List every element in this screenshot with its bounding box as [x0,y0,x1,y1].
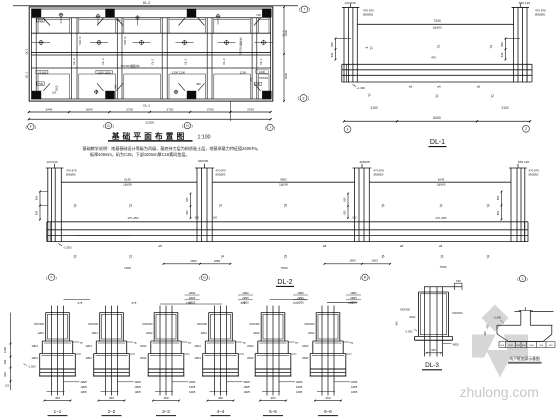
svg-text:2Ø12: 2Ø12 [86,344,93,348]
svg-text:70X300(偏板中): 70X300(偏板中) [238,37,242,55]
svg-text:1@600: 1@600 [437,183,446,187]
DL-2 left margin vertical dim chain [39,192,41,220]
svg-text:1Ø25: 1Ø25 [244,385,251,389]
plan column squares (filled) top row [32,9,41,18]
svg-text:300: 300 [195,216,200,219]
svg-text:3: 3 [347,128,349,132]
DL-3 dim 450 [427,352,442,354]
svg-text:J: J [522,277,524,281]
plan grid bubbles F G H J [28,123,34,129]
svg-text:1Ø32: 1Ø32 [350,291,357,295]
svg-text:400: 400 [395,321,399,326]
svg-text:1Ø25: 1Ø25 [296,390,303,394]
svg-text:450: 450 [431,348,436,352]
DL-2 column axis H [354,168,356,242]
svg-text:470 876: 470 876 [535,9,546,13]
DL-1 end axis bubbles [344,126,351,133]
svg-text:500: 500 [3,372,7,377]
svg-text:630: 630 [344,210,347,215]
DL-1 left column [343,7,345,82]
svg-text:2Ø12: 2Ø12 [253,331,260,335]
svg-text:470 876: 470 876 [216,169,227,173]
svg-text:DL-3: DL-3 [72,58,76,65]
svg-text:650: 650 [35,195,39,200]
svg-text:325325: 325325 [198,159,209,163]
svg-text:1Ø25: 1Ø25 [135,385,142,389]
svg-text:DL-1: DL-1 [184,58,188,65]
pit detail ground lines [497,324,521,326]
svg-text:9: 9 [303,96,305,100]
svg-text:120: 120 [52,90,57,94]
svg-text:DL-1: DL-1 [24,71,28,78]
svg-text:2100: 2100 [370,106,377,110]
svg-text:2Ø25: 2Ø25 [135,380,142,384]
svg-text:Ø50Ø50: Ø50Ø50 [529,173,539,177]
DL-3 rebar verticals [424,287,426,357]
svg-text:F: F [30,125,32,129]
svg-text:–1.500: –1.500 [28,365,36,369]
section 1-1 [32,301,88,416]
plan right-side vertical dimension 4200/4200 [283,7,285,101]
svg-text:530 120: 530 120 [518,160,529,164]
svg-text:470 876: 470 876 [374,169,385,173]
DL-2 column axis G [196,168,198,242]
svg-text:3750: 3750 [247,107,254,111]
pit detail excavation profile [496,325,498,334]
svg-text:|3: |3 [129,254,132,258]
svg-text:Ø50Ø50: Ø50Ø50 [216,173,226,177]
svg-text:DL-1: DL-1 [24,48,28,55]
svg-text:3–3: 3–3 [162,409,170,414]
svg-text:2Ø12: 2Ø12 [146,331,153,335]
svg-text:475 +850: 475 +850 [128,216,139,220]
plan footing box inner borders [37,18,39,33]
svg-text:7200: 7200 [124,266,131,270]
svg-text:G: G [203,276,206,280]
svg-text:1200 1200: 1200 1200 [172,70,186,74]
svg-text:2Ø25: 2Ø25 [242,301,249,305]
DL-3 top dim 515 [455,282,463,284]
DL-2 bottom beam box [47,221,528,223]
svg-text:300: 300 [484,331,487,336]
svg-text:坑下框加深示意图: 坑下框加深示意图 [509,356,540,361]
svg-text:7: 7 [304,8,306,12]
svg-text:2Ø12: 2Ø12 [247,344,254,348]
svg-text:|5: |5 [284,204,287,208]
svg-text:–1.500: –1.500 [405,330,413,334]
svg-text:–1.500: –1.500 [493,316,502,320]
svg-text:2Ø25: 2Ø25 [189,296,196,300]
svg-text:2Ø25: 2Ø25 [189,380,196,384]
DL-2 dim chain near H column [347,194,349,219]
svg-text:470 876: 470 876 [66,169,77,173]
svg-text:G: G [107,124,110,128]
svg-text:|2: |2 [436,94,439,98]
svg-text:|3: |3 [74,254,77,258]
svg-text:6645: 6645 [438,177,445,181]
DL-1 axis bubble 9 (left bottom) [300,95,307,102]
svg-text:470 876: 470 876 [363,9,374,13]
svg-text:2Ø25: 2Ø25 [350,301,357,305]
svg-text:70X170: 70X170 [123,36,127,46]
DL-1 bottom beam box [342,63,532,65]
svg-text:4Ø20: 4Ø20 [453,343,460,347]
svg-text:2: 2 [525,127,527,131]
svg-text:|5: |5 [284,254,287,258]
svg-text:3750: 3750 [126,107,133,111]
svg-text:DL-2: DL-2 [277,279,292,286]
svg-text:DL-2: DL-2 [143,1,150,5]
svg-text:2Ø12: 2Ø12 [140,344,147,348]
DL-2 small dim lines below [164,263,231,265]
DL-2 dim chain near J column [501,192,503,220]
svg-text:650: 650 [186,197,189,202]
svg-text:5–5: 5–5 [269,409,277,414]
svg-text:基础平面布置图: 基础平面布置图 [111,131,188,141]
svg-text:450: 450 [109,396,114,400]
svg-text:1–1: 1–1 [54,409,62,414]
svg-text:1:100: 1:100 [198,135,211,141]
svg-text:325325: 325325 [359,160,370,164]
svg-text:|6: |6 [382,204,385,208]
svg-text:650: 650 [344,197,347,202]
svg-text:DL-3: DL-3 [101,58,105,65]
plan dimension line 1 with bay dimensions [29,111,271,113]
plan interior vertical footing-box edges [35,18,37,99]
plan chamfer diagonals near columns [44,18,51,26]
svg-text:1Ø32: 1Ø32 [242,291,249,295]
svg-text:2Ø25: 2Ø25 [351,380,358,384]
svg-text:2Ø25: 2Ø25 [350,296,357,300]
svg-text:1Ø25: 1Ø25 [296,385,303,389]
svg-text:|1: |1 [370,46,373,50]
svg-text:650: 650 [496,210,500,215]
svg-text:470 876: 470 876 [529,169,540,173]
svg-text:2Ø12: 2Ø12 [86,356,93,360]
zhulong watermark logo [472,305,528,378]
svg-text:|6: |6 [382,254,385,258]
svg-text:|3: |3 [487,204,490,208]
svg-text:–1.300: –1.300 [356,86,365,90]
svg-text:7340: 7340 [433,19,441,23]
section 3-3 [140,301,196,416]
svg-text:|3: |3 [441,254,444,258]
plan column squares (filled) bottom row [32,91,41,99]
pit detail dimension cells [499,341,555,343]
svg-text:1880: 1880 [214,259,221,263]
svg-text:6145: 6145 [124,177,131,181]
svg-text:Ø50Ø50: Ø50Ø50 [363,13,374,17]
DL-1 right column [513,7,515,82]
section 4-4 [195,301,251,416]
svg-text:2Ø12: 2Ø12 [195,344,202,348]
svg-text:2Ø12: 2Ø12 [38,331,45,335]
svg-text:Ø50Ø50: Ø50Ø50 [374,173,384,177]
svg-text:70X300(偏板中): 70X300(偏板中) [120,64,139,68]
sections top leader lines [160,303,222,305]
svg-text:1@600: 1@600 [123,183,132,187]
DL-2 right end column (axis J) [510,168,512,242]
svg-text:1@600: 1@600 [279,183,288,187]
svg-text:70X170: 70X170 [78,36,82,46]
svg-text:120 530: 120 530 [344,1,355,5]
svg-text:|3: |3 [74,204,77,208]
svg-text:F: F [50,276,52,280]
svg-text:700X300: 700X300 [304,322,315,326]
svg-text:1200: 1200 [508,345,514,347]
svg-text:|2: |2 [491,94,494,98]
svg-text:1500: 1500 [190,259,197,263]
svg-text:2Ø12: 2Ø12 [308,331,315,335]
svg-text:475 +850: 475 +850 [436,216,447,220]
svg-text:2Ø25: 2Ø25 [297,301,304,305]
svg-text:2–2: 2–2 [108,409,116,414]
svg-text:zhulong.com: zhulong.com [460,384,539,400]
DL-1 beam top line with span dimension [357,23,513,25]
plan interior horizontal strip lines [31,17,270,19]
svg-text:700X300: 700X300 [34,322,45,326]
DL-3 top line [424,286,462,288]
svg-text:7500: 7500 [281,266,288,270]
svg-text:2Ø12: 2Ø12 [302,356,309,360]
svg-text:DL-1: DL-1 [151,58,155,65]
DL-1 axis bubble 7 (left top) [301,6,308,13]
svg-text:1200: 1200 [240,70,247,74]
svg-text:630: 630 [500,52,504,57]
svg-text:1Ø32: 1Ø32 [297,291,304,295]
svg-text:2Ø25: 2Ø25 [297,296,304,300]
svg-text:4200: 4200 [284,72,288,79]
svg-text:DL-1: DL-1 [430,139,445,146]
svg-text:|4: |4 [221,254,224,258]
svg-text:DL-2: DL-2 [143,104,150,108]
svg-text:DL-3: DL-3 [425,362,439,369]
svg-text:ø8: ø8 [439,244,443,248]
svg-text:400: 400 [486,324,489,329]
svg-text:2Ø25: 2Ø25 [296,380,303,384]
svg-text:6–6: 6–6 [324,409,332,414]
svg-text:ø5: ø5 [477,85,481,89]
DL-3 column rectangle [419,291,449,293]
svg-text:Ø50Ø50: Ø50Ø50 [66,173,76,177]
svg-text:1Ø25: 1Ø25 [189,390,196,394]
svg-text:2Ø25: 2Ø25 [242,296,249,300]
svg-text:675: 675 [132,301,137,305]
svg-text:2Ø25: 2Ø25 [81,380,88,384]
svg-text:|1: |1 [368,93,371,97]
svg-text:2Ø12: 2Ø12 [201,331,208,335]
svg-text:630: 630 [330,52,334,57]
svg-text:3640: 3640 [86,107,93,111]
svg-text:100: 100 [213,216,218,219]
svg-text:700X300: 700X300 [259,78,269,80]
svg-text:580: 580 [116,18,121,22]
svg-text:700X300: 700X300 [249,322,260,326]
section 1-1 far-left dimension chain [10,313,12,391]
svg-text:2Ø12: 2Ø12 [195,356,202,360]
svg-text:630: 630 [186,210,189,215]
svg-text:3750: 3750 [167,107,174,111]
svg-text:1Ø25: 1Ø25 [351,385,358,389]
svg-text:2Ø12: 2Ø12 [247,356,254,360]
svg-text:|3: |3 [487,254,490,258]
svg-text:ø8: ø8 [323,244,327,248]
svg-text:630: 630 [496,195,500,200]
svg-text:1200: 1200 [529,345,535,347]
DL-2 left end column (axis F) [47,168,49,242]
svg-text:1Ø25: 1Ø25 [135,390,142,394]
plan dimension line 2 (total) [29,118,271,120]
svg-text:1200: 1200 [3,347,7,353]
svg-text:630: 630 [35,210,39,215]
svg-text:450: 450 [218,396,223,400]
svg-text:580: 580 [196,82,201,86]
svg-text:ø8: ø8 [158,244,162,248]
section 2-2 [86,301,142,416]
svg-text:700X300: 700X300 [197,322,208,326]
svg-text:1Ø25: 1Ø25 [81,385,88,389]
svg-text:450: 450 [325,396,330,400]
svg-text:ø6: ø6 [437,85,441,89]
svg-text:Ø50Ø50: Ø50Ø50 [535,13,546,17]
foundation plan outer rectangle (double border) [29,7,273,101]
svg-text:1Ø25: 1Ø25 [244,390,251,394]
svg-text:500: 500 [114,84,118,89]
svg-text:3440: 3440 [46,107,53,111]
svg-text:基础教学说明：地基基础设计等级为丙级，基底持力层为粉质粘土层: 基础教学说明：地基基础设计等级为丙级，基底持力层为粉质粘土层，地基承载力特征值2… [83,145,261,151]
svg-text:|2: |2 [437,45,440,49]
DL-2 dim chain near G column [190,194,192,219]
DL-1 vertical dim chain left [335,39,337,60]
svg-text:2Ø12: 2Ø12 [92,331,99,335]
svg-text:700X300: 700X300 [142,322,153,326]
svg-text:1Ø32: 1Ø32 [189,291,196,295]
svg-text:2Ø12: 2Ø12 [140,356,147,360]
svg-text:板厚400mm，矶为C25，下部100mm厚C15素矶垫层。: 板厚400mm，矶为C25，下部100mm厚C15素矶垫层。 [90,151,190,157]
svg-text:ø5: ø5 [409,85,413,89]
svg-text:–1.500: –1.500 [63,246,72,250]
svg-text:6850: 6850 [280,177,287,181]
svg-text:530 120: 530 120 [519,1,530,5]
DL-2 beam top lines with span dims [61,181,197,183]
DL-1 bottom dimension line 8400 [344,120,530,122]
svg-text:3750: 3750 [207,107,214,111]
svg-text:|4: |4 [219,204,222,208]
svg-text:700X300: 700X300 [88,322,99,326]
svg-text:2Ø12: 2Ø12 [302,344,309,348]
svg-text:7500: 7500 [440,265,447,269]
svg-text:2Ø12: 2Ø12 [409,315,416,319]
svg-text:675: 675 [78,301,83,305]
svg-text:700X300: 700X300 [452,311,463,315]
svg-text:475: 475 [431,56,436,60]
svg-text:|3: |3 [440,204,443,208]
svg-text:700: 700 [249,77,253,82]
svg-text:1@600: 1@600 [432,25,442,29]
svg-text:1Ø25: 1Ø25 [81,390,88,394]
svg-text:|2: |2 [490,45,493,49]
svg-text:2Ø12: 2Ø12 [32,344,39,348]
svg-text:22300: 22300 [145,121,154,125]
svg-text:1600: 1600 [371,259,378,263]
svg-text:700: 700 [256,13,261,17]
svg-text:650: 650 [330,42,334,47]
svg-text:1Ø25: 1Ø25 [189,385,196,389]
svg-text:DL-1: DL-1 [282,30,286,37]
DL-2 axis bubbles F G H J [48,274,54,280]
svg-text:DL-1: DL-1 [259,58,263,65]
plan strip-2 anchor circles with leaders [32,42,50,44]
svg-text:515: 515 [456,279,461,283]
svg-text:2Ø12: 2Ø12 [32,356,39,360]
svg-text:1800: 1800 [349,259,356,263]
svg-text:400: 400 [3,359,7,364]
svg-text:DL-3: DL-3 [222,58,226,65]
svg-text:ø8: ø8 [400,244,404,248]
svg-text:1Ø25: 1Ø25 [351,390,358,394]
plan grid line extension tick [229,101,231,121]
svg-text:2Ø25: 2Ø25 [244,380,251,384]
svg-text:2100: 2100 [501,106,508,110]
svg-text:650: 650 [500,42,504,47]
svg-text:450: 450 [55,396,60,400]
svg-text:120 530: 120 530 [46,160,57,164]
svg-text:450: 450 [270,396,275,400]
svg-text:450: 450 [163,396,168,400]
section 5-5 [247,301,303,416]
svg-text:120: 120 [5,384,10,388]
pit detail pedestal [520,311,522,326]
section 6-6 [302,301,358,416]
DL-3 bottom lines [415,336,453,338]
svg-text:8400: 8400 [433,116,441,120]
svg-text:4–4: 4–4 [217,409,225,414]
svg-text:J: J [269,126,271,130]
svg-text:|3: |3 [129,204,132,208]
svg-text:700X400: 700X400 [400,308,411,312]
DL-1 vertical dim chain right [505,39,507,60]
svg-text:100: 100 [352,216,357,219]
